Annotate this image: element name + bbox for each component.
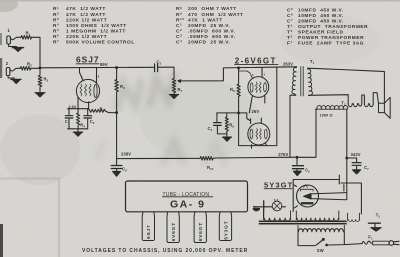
svg-text:OUTPUT TRANSFORMER: OUTPUT TRANSFORMER <box>298 24 368 30</box>
svg-text:470 OHM 1/2 WATT: 470 OHM 1/2 WATT <box>188 12 244 18</box>
svg-text:47K 1/2 WATT: 47K 1/2 WATT <box>66 12 106 18</box>
svg-text:220K 1/2 WATT: 220K 1/2 WATT <box>66 17 107 23</box>
svg-text:POWER TRANSFORMER: POWER TRANSFORMER <box>298 35 364 41</box>
svg-text:1 MEGOHM 1/2 WATT: 1 MEGOHM 1/2 WATT <box>66 28 126 34</box>
svg-text:6SJ7: 6SJ7 <box>76 55 100 65</box>
svg-text:2.6V: 2.6V <box>69 105 77 109</box>
svg-text:SPEAKER FIELD: SPEAKER FIELD <box>298 30 344 36</box>
svg-text:220K 1/2 WATT: 220K 1/2 WATT <box>66 34 107 40</box>
svg-text:89V: 89V <box>100 62 108 67</box>
svg-text:26V: 26V <box>252 109 260 114</box>
svg-text:5Y3GT: 5Y3GT <box>224 221 230 240</box>
svg-text:10MFD 450 W.V.: 10MFD 450 W.V. <box>298 13 344 19</box>
svg-text:500K VOLUME CONTROL: 500K VOLUME CONTROL <box>66 39 135 45</box>
svg-text:6V6GT: 6V6GT <box>198 222 204 241</box>
svg-text:20MFD 450 W.V.: 20MFD 450 W.V. <box>298 19 344 25</box>
svg-text:275V: 275V <box>278 152 288 157</box>
svg-text:47K 1/2 WATT: 47K 1/2 WATT <box>66 6 106 12</box>
svg-text:.05MFD 600 W.V.: .05MFD 600 W.V. <box>188 34 236 40</box>
svg-text:20MFD 25 W.V.: 20MFD 25 W.V. <box>188 39 230 45</box>
svg-text:6V6GT: 6V6GT <box>171 222 177 241</box>
svg-text:342V: 342V <box>351 152 361 157</box>
svg-text:FUSE 2AMP TYPE 3AG: FUSE 2AMP TYPE 3AG <box>298 41 364 47</box>
svg-text:238V: 238V <box>121 152 131 157</box>
svg-text:GA- 9: GA- 9 <box>170 198 206 210</box>
svg-text:1000 Ω: 1000 Ω <box>320 114 333 118</box>
svg-text:VOLTAGES TO CHASSIS, USING 20,: VOLTAGES TO CHASSIS, USING 20,000 OPV. M… <box>82 248 248 254</box>
svg-text:200 OHM 7 WATT: 200 OHM 7 WATT <box>188 6 237 12</box>
svg-text:47K 1 WATT: 47K 1 WATT <box>188 17 223 23</box>
svg-text:20MFD 25 W.V.: 20MFD 25 W.V. <box>188 23 230 29</box>
svg-text:10MFD 450 W.V.: 10MFD 450 W.V. <box>298 8 344 14</box>
svg-text:.05MFD 600 W.V.: .05MFD 600 W.V. <box>188 28 236 34</box>
svg-text:1000 OHMS 1/2 WATT: 1000 OHMS 1/2 WATT <box>66 23 127 29</box>
svg-text:SW: SW <box>317 248 324 253</box>
svg-text:263V: 263V <box>283 61 293 66</box>
svg-text:6.3: 6.3 <box>274 198 279 202</box>
svg-text:6SJ7: 6SJ7 <box>146 225 152 239</box>
